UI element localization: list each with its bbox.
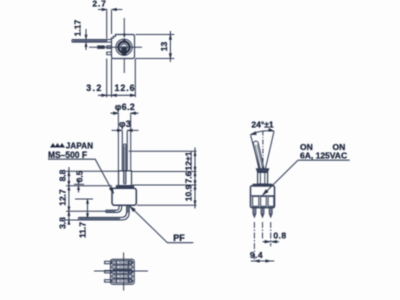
svg-text:11.7: 11.7 — [78, 222, 88, 238]
svg-text:8.8: 8.8 — [58, 169, 68, 181]
svg-text:24°±1: 24°±1 — [251, 120, 274, 130]
svg-text:0.8: 0.8 — [273, 231, 286, 241]
svg-text:3.2: 3.2 — [86, 83, 102, 93]
svg-text:10.9: 10.9 — [184, 184, 194, 201]
svg-text:2.7: 2.7 — [92, 0, 106, 9]
svg-text:φ3: φ3 — [119, 119, 131, 129]
svg-text:PF: PF — [173, 233, 185, 243]
svg-text:6A, 125VAC: 6A, 125VAC — [300, 150, 347, 160]
svg-text:1.17: 1.17 — [73, 19, 83, 36]
svg-text:0.5: 0.5 — [74, 170, 84, 182]
svg-text:MS–500 F: MS–500 F — [48, 150, 87, 161]
svg-text:7.6: 7.6 — [184, 171, 194, 183]
svg-text:φ6.2: φ6.2 — [115, 102, 135, 112]
svg-text:13: 13 — [159, 42, 169, 52]
svg-text:12.7: 12.7 — [58, 189, 68, 206]
svg-text:12±1: 12±1 — [184, 151, 194, 170]
svg-text:9.4: 9.4 — [250, 250, 263, 260]
svg-text:12.6: 12.6 — [114, 83, 135, 93]
svg-text:3.8: 3.8 — [58, 217, 68, 229]
